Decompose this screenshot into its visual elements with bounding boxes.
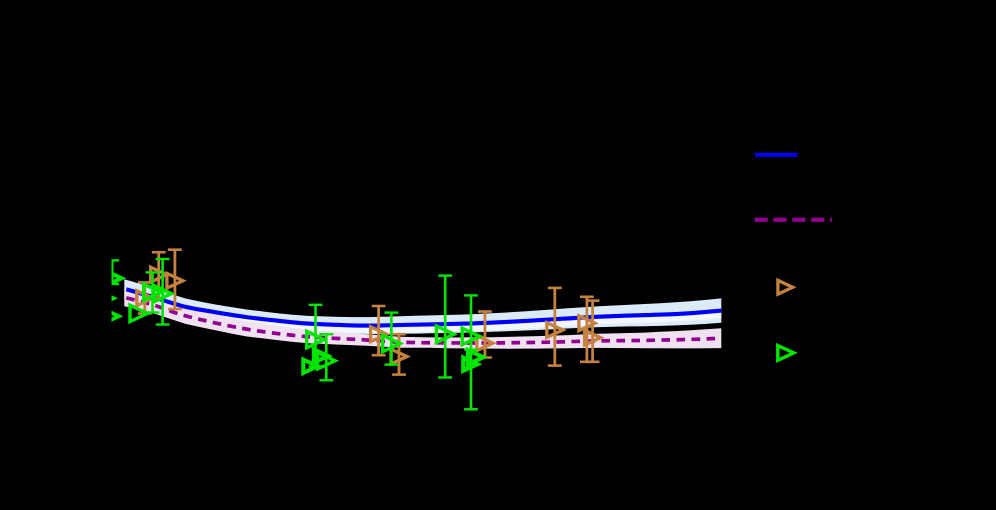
brown marker b5: [391, 349, 407, 364]
green marker g1a (clipped): [104, 270, 122, 286]
green marker g4: [130, 305, 148, 321]
brown marker b3: [167, 273, 183, 288]
legend brown marker: [778, 280, 793, 294]
green cap g10: [464, 348, 478, 350]
green marker g8: [436, 326, 454, 342]
green marker g3: [154, 285, 172, 301]
brown errorbar b5: [398, 334, 401, 374]
green marker g1b (clipped tip): [96, 290, 114, 306]
legend magenta dashed line: [755, 217, 833, 221]
green marker g6: [318, 353, 336, 369]
green errorbar g8: [444, 276, 447, 378]
brown errorbar b9: [591, 301, 594, 362]
green marker g10: [468, 350, 483, 364]
brown errorbar b3: [173, 250, 176, 309]
brown errorbar b6: [483, 312, 486, 358]
green errorbar g6: [325, 334, 328, 380]
green errorbar g2: [151, 272, 154, 312]
brown marker b2: [151, 267, 167, 282]
green marker g5c: [314, 349, 328, 362]
legend blue line: [755, 153, 798, 157]
green errorbar g7: [390, 313, 393, 365]
green marker g5: [307, 331, 325, 347]
brown marker b9: [585, 330, 601, 345]
brown errorbar b2: [157, 252, 160, 298]
brown errorbar b8: [586, 297, 589, 362]
brown errorbar b7: [553, 288, 556, 366]
brown errorbar b4: [377, 306, 380, 355]
magenta dashed fit line: [126, 298, 721, 343]
brown marker b1: [137, 291, 153, 306]
brown marker b8: [579, 316, 595, 331]
blue fit line: [126, 289, 721, 325]
legend green marker: [778, 346, 794, 361]
green errorbar g3: [161, 259, 164, 325]
green marker g1c (clipped tip): [101, 308, 119, 324]
brown marker b4: [371, 327, 387, 342]
blue confidence band: [124, 279, 721, 334]
green marker g5b: [303, 360, 317, 373]
green marker g11: [463, 358, 477, 371]
green marker g7: [383, 335, 401, 351]
green errorbar g1 (clipped at axis): [111, 260, 114, 284]
white inner strip: [126, 292, 721, 333]
green marker g9: [462, 328, 480, 344]
green marker g2: [144, 284, 162, 300]
brown marker b7: [547, 323, 563, 338]
brown marker b6: [477, 336, 493, 351]
green errorbar g9: [470, 295, 473, 409]
green errorbar g5: [314, 305, 317, 367]
pink confidence band: [124, 289, 721, 348]
brown errorbar b1: [143, 282, 146, 313]
